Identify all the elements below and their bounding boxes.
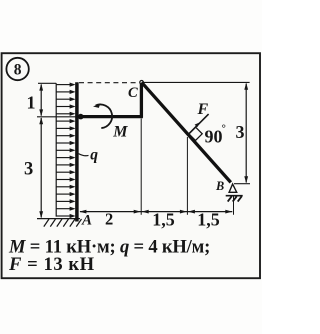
- diagonal member C-B: [142, 82, 231, 182]
- node C circle: [140, 81, 144, 85]
- leader line for q: [79, 154, 89, 156]
- svg-text:90: 90: [205, 126, 223, 146]
- force F arrow: [189, 114, 208, 133]
- extension line below B: [233, 196, 235, 215]
- svg-text:1,5: 1,5: [197, 209, 220, 229]
- svg-text:C: C: [128, 85, 138, 101]
- ground hatching at A: [37, 219, 82, 227]
- distributed load q left line: [55, 83, 57, 216]
- dashed construction line to C: [79, 82, 139, 84]
- svg-text:3: 3: [24, 159, 33, 179]
- right angle square: [189, 127, 202, 140]
- distributed load arrows: [56, 83, 75, 219]
- svg-text:3: 3: [236, 122, 245, 142]
- moment arc M: [93, 103, 112, 128]
- border frame: [2, 53, 260, 278]
- bottom dimension line: [79, 210, 232, 214]
- svg-text:2: 2: [105, 210, 113, 229]
- svg-text:°: °: [222, 123, 226, 135]
- extension line below C: [140, 119, 142, 215]
- svg-text:B: B: [215, 179, 224, 193]
- svg-text:F = 13 кН: F = 13 кН: [8, 254, 95, 275]
- joint dot at bar/member: [78, 114, 84, 120]
- dimension line 3 (right): [244, 83, 248, 184]
- top extension line from C to right: [144, 81, 250, 83]
- beam bar A-top (vertical): [75, 82, 79, 221]
- dimension tick mid-left: [37, 116, 77, 118]
- extension line mid bottom: [186, 137, 188, 215]
- svg-text:1,5: 1,5: [152, 209, 175, 229]
- problem number badge 8: [6, 58, 28, 80]
- support hatches: [228, 196, 242, 201]
- svg-text:1: 1: [27, 92, 36, 112]
- support ground line: [226, 195, 243, 197]
- dimension line 1 (left top): [39, 84, 43, 117]
- svg-text:F: F: [197, 101, 209, 118]
- svg-text:q: q: [90, 146, 98, 163]
- tick at B level right: [234, 183, 250, 185]
- dimension line 3 (left): [39, 117, 43, 218]
- support triangle at B: [229, 184, 237, 192]
- svg-text:A: A: [81, 212, 92, 228]
- vertical member below C: [140, 83, 143, 118]
- svg-text:8: 8: [14, 61, 22, 78]
- svg-text:M: M: [112, 123, 128, 140]
- horizontal member: [77, 115, 143, 118]
- dimension tick top-left: [38, 82, 56, 84]
